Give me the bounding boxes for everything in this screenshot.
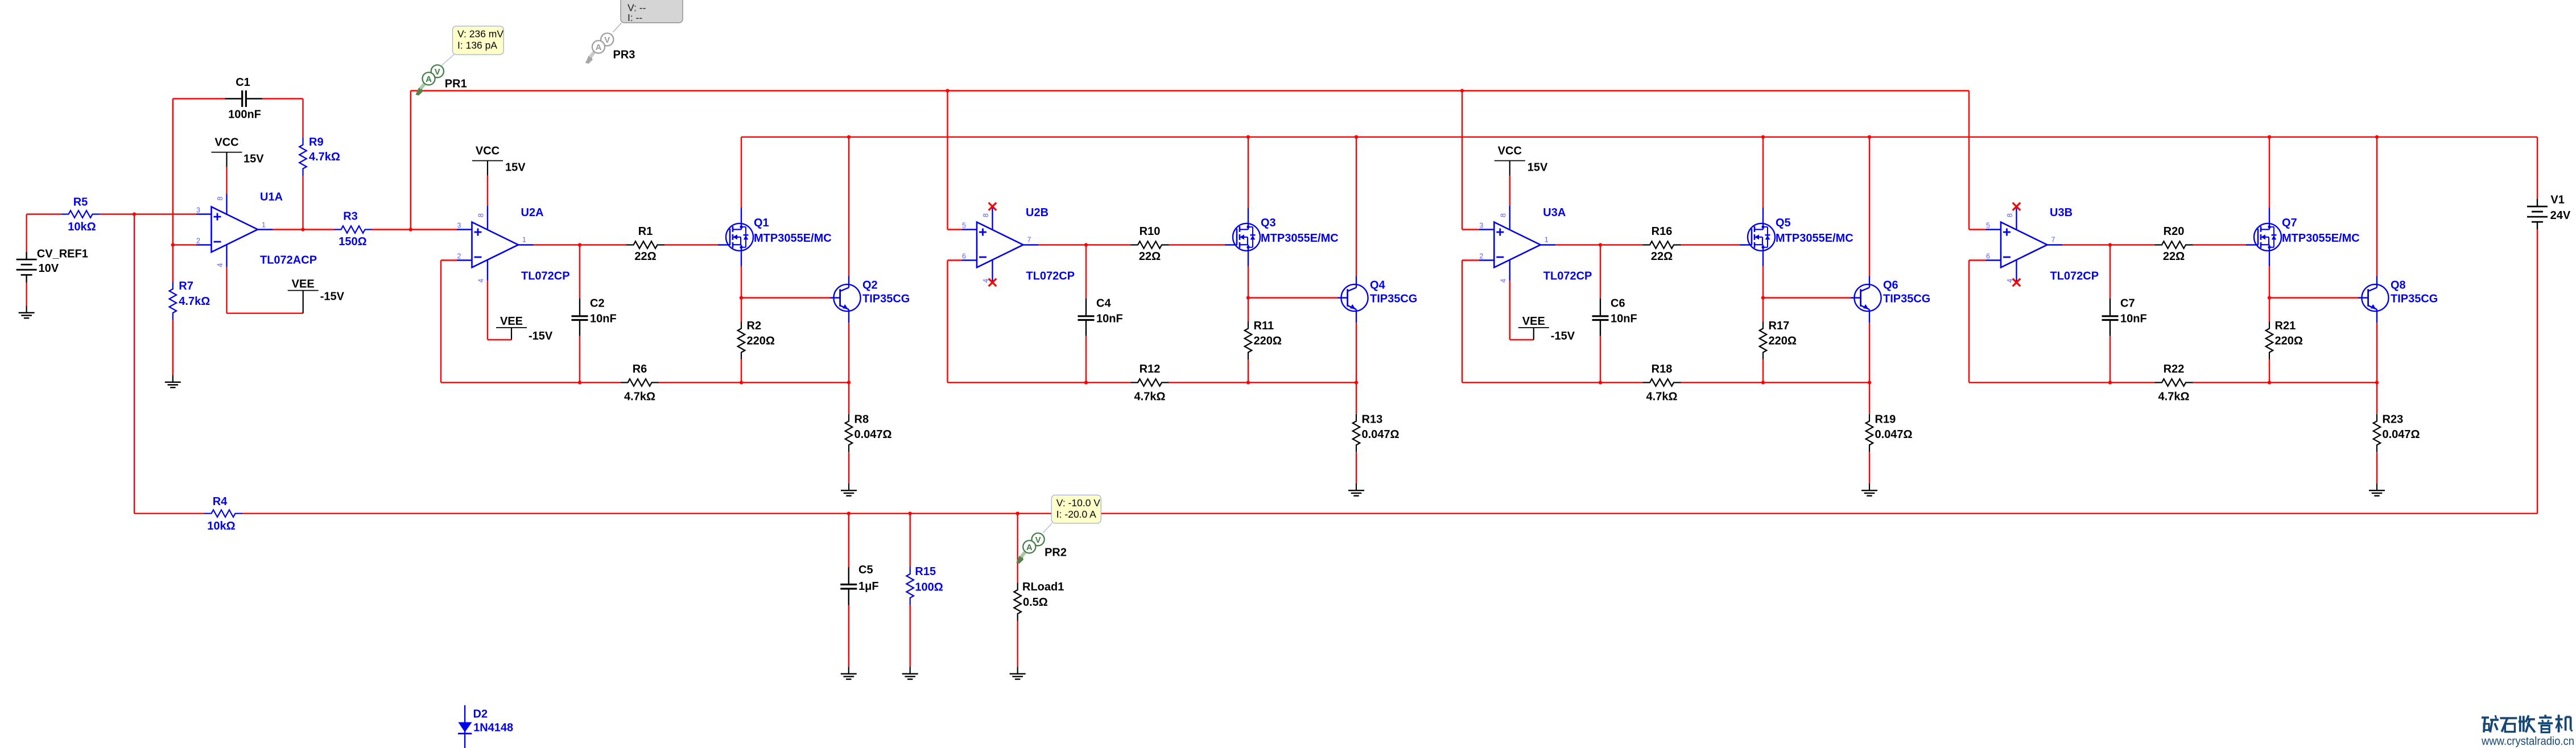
node collector/rail	[1868, 135, 1871, 139]
node source junction	[2268, 296, 2271, 299]
svg-text:1: 1	[522, 236, 526, 244]
node U2B output junction	[1084, 243, 1088, 246]
node cap/feedback	[2108, 381, 2112, 384]
VCC symbol U1A 15V	[212, 152, 242, 153]
BJT Q6 TIP35CG	[1854, 284, 1881, 311]
resistor R1 22Ω	[626, 241, 664, 249]
svg-text:R23: R23	[2383, 414, 2404, 426]
svg-text:D2: D2	[473, 708, 488, 721]
svg-text:V: V	[435, 67, 440, 77]
no-connect X pin 4	[2013, 279, 2021, 287]
svg-text:4.7kΩ: 4.7kΩ	[1134, 391, 1166, 403]
ground (RLoad1)	[1017, 667, 1018, 673]
svg-text:TIP35CG: TIP35CG	[1883, 293, 1930, 305]
svg-text:R11: R11	[1254, 320, 1274, 332]
svg-text:22Ω: 22Ω	[634, 250, 656, 263]
svg-text:3: 3	[457, 222, 461, 230]
svg-text:8: 8	[2006, 213, 2014, 217]
svg-text:R6: R6	[633, 363, 647, 375]
svg-text:PR1: PR1	[445, 78, 467, 90]
node U3A output junction	[1599, 243, 1602, 246]
svg-text:15V: 15V	[243, 153, 264, 166]
wire collector to rail	[848, 276, 849, 288]
svg-text:3: 3	[1479, 222, 1483, 230]
svg-text:R2: R2	[747, 320, 762, 332]
svg-text:U2A: U2A	[521, 206, 544, 219]
svg-text:MTP3055E/MC: MTP3055E/MC	[2282, 232, 2360, 245]
svg-text:4: 4	[1499, 279, 1507, 283]
node cap/feedback	[1599, 381, 1602, 384]
svg-text:R19: R19	[1875, 414, 1896, 426]
resistor R11 220Ω	[1248, 298, 1249, 322]
wire gate lead	[2193, 244, 2247, 245]
wire to BJT base	[1248, 297, 1337, 298]
svg-text:VCC: VCC	[214, 137, 238, 149]
svg-text:V: V	[1035, 535, 1041, 545]
resistor R20 22Ω	[2155, 241, 2193, 249]
node emitter/feedback	[2375, 381, 2379, 384]
node emitter/feedback	[847, 381, 851, 384]
svg-text:R10: R10	[1140, 225, 1161, 238]
svg-text:10kΩ: 10kΩ	[68, 221, 96, 233]
svg-text:TL072CP: TL072CP	[521, 270, 570, 283]
node source junction	[740, 296, 743, 299]
svg-text:15V: 15V	[1528, 162, 1548, 174]
svg-text:Q7: Q7	[2282, 217, 2297, 229]
wire collector to rail	[1356, 276, 1357, 288]
resistor R5 10k	[27, 213, 61, 214]
measurement box PR2	[1051, 495, 1101, 523]
svg-text:2: 2	[1479, 253, 1483, 261]
no-connect X pin 4	[989, 279, 997, 287]
wire U2A - input loop	[441, 259, 457, 261]
resistor R17 220Ω	[1762, 298, 1764, 322]
capacitor C4 10nF	[1085, 245, 1087, 299]
svg-text:1N4148: 1N4148	[473, 722, 513, 734]
wire bottom output rail	[134, 513, 204, 514]
svg-text:220Ω: 220Ω	[2275, 335, 2303, 348]
svg-text:I: --: I: --	[628, 12, 642, 23]
svg-text:R16: R16	[1652, 225, 1673, 238]
probe PR2	[1021, 547, 1030, 557]
svg-text:TL072CP: TL072CP	[1543, 270, 1592, 283]
svg-text:22Ω: 22Ω	[1139, 250, 1161, 263]
node source junction	[1761, 296, 1765, 299]
wire U2B + input tap	[947, 91, 948, 230]
node cap/feedback	[578, 381, 581, 384]
wire U3A output	[1541, 244, 1556, 245]
svg-text:10nF: 10nF	[2120, 313, 2147, 325]
svg-text:TIP35CG: TIP35CG	[1370, 293, 1417, 305]
no-connect X pin 8	[2013, 203, 2021, 210]
svg-text:VEE: VEE	[292, 278, 315, 291]
svg-text:R20: R20	[2164, 225, 2185, 238]
node drain/rail	[2268, 135, 2271, 139]
wire collector to rail	[2376, 276, 2377, 288]
node PR1 tap junction	[409, 228, 412, 231]
measurement box PR3	[621, 0, 683, 23]
svg-text:V: -10.0 V: V: -10.0 V	[1056, 497, 1100, 509]
wire drain to rail	[2269, 208, 2270, 229]
svg-text:10nF: 10nF	[1096, 313, 1123, 325]
node R15 tap	[909, 512, 912, 515]
svg-text:8: 8	[477, 213, 485, 217]
svg-text:VCC: VCC	[1498, 145, 1522, 158]
callout line PR3	[613, 23, 622, 32]
svg-text:4.7kΩ: 4.7kΩ	[309, 151, 340, 163]
wire feedback row	[1681, 382, 1870, 383]
svg-text:1: 1	[262, 221, 266, 229]
ground (CV_REF1)	[26, 306, 27, 313]
ground (R23)	[2376, 483, 2377, 490]
svg-text:R15: R15	[915, 565, 936, 578]
wire U3B + input tap	[1968, 91, 1970, 230]
svg-text:RLoad1: RLoad1	[1022, 581, 1064, 593]
resistor R2 220Ω	[741, 298, 742, 322]
node top-rail stage2 tap	[946, 89, 949, 92]
resistor R19 0.047Ω	[1869, 383, 1870, 414]
wire R5 node to U1A + input	[134, 213, 196, 214]
MOSFET Q3 MTP3055E/MC	[1233, 224, 1260, 251]
svg-text:22Ω: 22Ω	[2163, 250, 2185, 263]
op-amp U3A TL072CP	[1494, 222, 1541, 268]
BJT Q4 TIP35CG	[1341, 284, 1368, 311]
resistor R16 22Ω	[1643, 241, 1681, 249]
svg-text:5: 5	[1986, 222, 1990, 230]
svg-text:R7: R7	[179, 280, 193, 292]
svg-text:8: 8	[1499, 213, 1507, 217]
op-amp U2B TL072CP	[977, 222, 1023, 268]
ground (R7)	[172, 375, 174, 382]
svg-text:R21: R21	[2275, 320, 2296, 332]
node U1A output	[301, 228, 304, 231]
wire top rail (PR1 net)	[411, 90, 1969, 91]
wire to BJT base	[741, 297, 830, 298]
svg-text:TL072CP: TL072CP	[2050, 270, 2099, 283]
svg-text:5: 5	[962, 222, 966, 230]
svg-text:1μF: 1μF	[858, 580, 879, 593]
pin 4 stub (unconnected)	[992, 260, 993, 282]
resistor R4 10k	[204, 510, 242, 517]
svg-text:VEE: VEE	[1522, 315, 1545, 328]
ground (R8)	[848, 483, 849, 490]
node emitter/feedback	[1868, 381, 1871, 384]
svg-text:U3A: U3A	[1543, 206, 1566, 219]
ground (R15)	[910, 667, 911, 673]
capacitor C1 100nF	[173, 98, 225, 99]
svg-text:8: 8	[216, 196, 224, 200]
resistor R7 4.7k	[172, 245, 174, 282]
wire U3B output	[2047, 244, 2063, 245]
resistor R13 0.047Ω	[1356, 383, 1357, 414]
svg-text:C4: C4	[1096, 297, 1111, 310]
svg-text:C2: C2	[590, 297, 605, 310]
wire PR1 riser	[410, 91, 411, 230]
wire feedback row	[1169, 382, 1357, 383]
svg-text:0.5Ω: 0.5Ω	[1023, 596, 1048, 609]
resistor R21 220Ω	[2269, 298, 2270, 322]
VEE symbol U1A -15V	[226, 245, 227, 267]
svg-text:3: 3	[196, 206, 200, 214]
VCC symbol U3A 15V	[1495, 160, 1525, 162]
op-amp U2A TL072CP	[472, 222, 519, 268]
node collector/rail	[1355, 135, 1358, 139]
svg-text:Q4: Q4	[1370, 279, 1386, 292]
wire U3A - input loop	[1462, 259, 1479, 261]
node drain/rail	[1761, 135, 1765, 139]
resistor R8 0.047Ω	[848, 383, 849, 414]
svg-text:1: 1	[1545, 236, 1549, 244]
MOSFET Q7 MTP3055E/MC	[2254, 224, 2281, 251]
svg-text:PR3: PR3	[613, 49, 635, 61]
wire drain to rail	[741, 208, 742, 229]
node R5/R4 junction	[133, 212, 136, 216]
node cap/feedback	[1084, 381, 1088, 384]
VEE symbol U2A -15V	[487, 260, 488, 280]
svg-text:15V: 15V	[505, 162, 526, 174]
svg-text:100nF: 100nF	[228, 109, 261, 121]
svg-text:2: 2	[196, 237, 200, 245]
svg-text:U3B: U3B	[2050, 206, 2073, 219]
svg-text:7: 7	[1027, 236, 1031, 244]
svg-text:U1A: U1A	[260, 191, 283, 204]
MOSFET Q5 MTP3055E/MC	[1748, 224, 1775, 251]
op-amp U3B TL072CP	[2001, 222, 2047, 268]
svg-text:www.crystalradio.cn: www.crystalradio.cn	[2481, 735, 2574, 748]
wire drain to rail	[1762, 208, 1764, 229]
svg-text:2: 2	[457, 253, 461, 261]
probe PR3 (inactive)	[591, 47, 599, 57]
svg-text:V: V	[604, 35, 610, 45]
wire gate lead	[664, 244, 718, 245]
svg-text:TIP35CG: TIP35CG	[2391, 293, 2438, 305]
svg-text:220Ω: 220Ω	[1254, 335, 1282, 348]
wire U2A output	[518, 244, 534, 245]
svg-text:C5: C5	[858, 564, 873, 576]
svg-text:R8: R8	[854, 414, 869, 426]
svg-text:-15V: -15V	[1551, 330, 1575, 342]
svg-text:Q2: Q2	[862, 279, 878, 292]
svg-text:220Ω: 220Ω	[747, 335, 775, 348]
svg-text:10nF: 10nF	[1611, 313, 1637, 325]
MOSFET Q1 MTP3055E/MC	[726, 224, 753, 251]
node collector/rail	[847, 135, 851, 139]
svg-text:I: 136 pA: I: 136 pA	[457, 39, 497, 51]
svg-text:TL072CP: TL072CP	[1026, 270, 1075, 283]
svg-text:CV_REF1: CV_REF1	[37, 248, 88, 261]
pin 8 stub (unconnected)	[992, 208, 993, 229]
svg-text:Q8: Q8	[2391, 279, 2406, 292]
VEE symbol U3A -15V	[1509, 260, 1510, 280]
ground (R13)	[1356, 483, 1357, 490]
probe PR1	[420, 78, 429, 89]
svg-text:A: A	[596, 43, 602, 52]
svg-text:100Ω: 100Ω	[915, 581, 943, 594]
wire U1A output	[258, 229, 273, 230]
svg-text:220Ω: 220Ω	[1769, 335, 1797, 348]
svg-text:V: 236 mV: V: 236 mV	[457, 28, 503, 39]
svg-text:A: A	[1026, 543, 1033, 552]
svg-text:6: 6	[1986, 253, 1990, 261]
svg-text:10nF: 10nF	[590, 313, 617, 325]
wire U2B - input loop	[948, 259, 962, 261]
callout line PR2	[1043, 523, 1052, 533]
node drain/rail	[1246, 135, 1250, 139]
svg-text:MTP3055E/MC: MTP3055E/MC	[1776, 232, 1853, 245]
svg-text:-15V: -15V	[320, 291, 345, 303]
svg-text:Q5: Q5	[1776, 217, 1791, 229]
svg-text:-15V: -15V	[529, 330, 553, 342]
svg-text:A: A	[426, 75, 432, 84]
svg-text:I: -20.0 A: I: -20.0 A	[1056, 509, 1096, 520]
svg-text:0.047Ω: 0.047Ω	[1875, 428, 1913, 441]
svg-text:Q6: Q6	[1883, 279, 1898, 292]
node Rv/feedback	[1761, 381, 1765, 384]
no-connect X pin 8	[989, 203, 997, 210]
svg-text:7: 7	[2051, 236, 2055, 244]
svg-text:R4: R4	[213, 495, 228, 508]
wire emitter down	[848, 309, 849, 323]
VCC symbol U2A 15V	[472, 160, 503, 162]
svg-text:4: 4	[477, 279, 485, 283]
svg-text:R12: R12	[1140, 363, 1161, 375]
pin 8 stub (unconnected)	[2016, 208, 2017, 229]
svg-text:R1: R1	[638, 225, 653, 238]
svg-text:22Ω: 22Ω	[1651, 250, 1673, 263]
svg-text:6: 6	[962, 253, 966, 261]
wire U3A + input tap	[1462, 91, 1463, 230]
svg-text:10V: 10V	[39, 262, 59, 275]
svg-text:R18: R18	[1652, 363, 1673, 375]
node U2A output junction	[578, 243, 581, 246]
resistor R3 150	[334, 226, 372, 233]
wire source down	[1762, 245, 1764, 267]
battery V1 24V	[2537, 137, 2538, 199]
node C5 tap	[847, 512, 851, 515]
svg-text:Q1: Q1	[754, 217, 769, 229]
wire C1 left leg down to U1A - input	[172, 99, 174, 245]
svg-text:8: 8	[982, 213, 990, 217]
wire U2A + input tap	[411, 229, 457, 230]
node Rv/feedback	[2268, 381, 2271, 384]
svg-text:150Ω: 150Ω	[338, 235, 366, 248]
svg-text:Q3: Q3	[1261, 217, 1276, 229]
wire to BJT base	[1763, 297, 1851, 298]
svg-text:C6: C6	[1611, 297, 1625, 310]
node top-rail stage3 tap	[1460, 89, 1464, 92]
node RLoad1 tap	[1016, 512, 1019, 515]
wire U2B output	[1023, 244, 1039, 245]
capacitor C5 1uF	[848, 514, 849, 567]
node emitter/feedback	[1355, 381, 1358, 384]
BJT Q2 TIP35CG	[833, 284, 860, 311]
diode D2 1N4148	[464, 705, 465, 748]
ground (C5)	[848, 667, 849, 673]
svg-text:PR2: PR2	[1045, 547, 1067, 559]
wire U3B - input loop	[1969, 259, 1986, 261]
svg-text:R17: R17	[1769, 320, 1790, 332]
measurement box PR1	[453, 26, 504, 55]
BJT Q8 TIP35CG	[2362, 284, 2388, 311]
resistor R15 100	[909, 514, 910, 567]
node Rv/feedback	[1246, 381, 1250, 384]
wire collector to rail	[1869, 276, 1870, 288]
callout line PR1	[442, 55, 454, 65]
resistor R22 4.7kΩ	[2155, 379, 2193, 386]
op-amp U1A TL072ACP	[212, 207, 258, 253]
svg-text:R5: R5	[73, 196, 88, 209]
wire emitter down	[1356, 309, 1357, 323]
svg-text:U2B: U2B	[1026, 206, 1048, 219]
svg-text:MTP3055E/MC: MTP3055E/MC	[1261, 232, 1339, 245]
node source junction	[1246, 296, 1250, 299]
svg-text:4.7kΩ: 4.7kΩ	[624, 391, 655, 403]
svg-text:4: 4	[216, 263, 224, 267]
svg-text:MTP3055E/MC: MTP3055E/MC	[754, 232, 832, 245]
svg-text:0.047Ω: 0.047Ω	[854, 428, 892, 441]
svg-text:R3: R3	[343, 210, 358, 223]
resistor R6 4.7kΩ	[621, 379, 659, 386]
wire emitter down	[2376, 309, 2377, 323]
svg-text:VCC: VCC	[476, 145, 499, 158]
pin 4 stub (unconnected)	[2016, 260, 2017, 282]
ground (R19)	[1869, 483, 1870, 490]
watermark	[2482, 717, 2489, 719]
wire source down	[1248, 245, 1249, 267]
wire gate lead	[1169, 244, 1225, 245]
voltage source CV_REF1 10V	[26, 214, 27, 252]
svg-text:4.7kΩ: 4.7kΩ	[179, 295, 210, 308]
svg-text:C7: C7	[2120, 297, 2135, 310]
node U1A inverting node	[171, 243, 175, 246]
resistor R18 4.7kΩ	[1643, 379, 1681, 386]
wire to U1A - input	[173, 244, 196, 245]
svg-text:TIP35CG: TIP35CG	[862, 293, 910, 305]
svg-text:R13: R13	[1362, 414, 1383, 426]
node collector/rail	[2375, 135, 2379, 139]
resistor RLoad1 0.5	[1017, 514, 1018, 583]
svg-text:10kΩ: 10kΩ	[207, 520, 235, 532]
svg-text:TL072ACP: TL072ACP	[260, 254, 317, 267]
wire source down	[2269, 245, 2270, 267]
wire feedback row	[2193, 382, 2377, 383]
svg-text:24V: 24V	[2550, 209, 2571, 222]
capacitor C7 10nF	[2109, 245, 2111, 299]
svg-text:4.7kΩ: 4.7kΩ	[2158, 391, 2190, 403]
resistor R12 4.7kΩ	[1131, 379, 1169, 386]
wire feedback drop from R5 node to R4	[134, 214, 135, 514]
svg-text:0.047Ω: 0.047Ω	[2383, 428, 2420, 441]
svg-text:4.7kΩ: 4.7kΩ	[1646, 391, 1678, 403]
wire feedback row	[659, 382, 849, 383]
resistor R23 0.047Ω	[2376, 383, 2377, 414]
svg-text:C1: C1	[236, 76, 250, 89]
resistor R9 4.7k	[302, 99, 303, 138]
node Rv/feedback	[740, 381, 743, 384]
wire source down	[741, 245, 742, 267]
wire 24V positive rail	[741, 137, 2537, 138]
resistor R10 22Ω	[1131, 241, 1169, 249]
wire emitter down	[1869, 309, 1870, 323]
svg-text:R9: R9	[309, 136, 324, 148]
capacitor C2 10nF	[579, 245, 580, 299]
node U3B output junction	[2108, 243, 2112, 246]
svg-text:0.047Ω: 0.047Ω	[1362, 428, 1400, 441]
svg-text:V1: V1	[2550, 194, 2564, 206]
wire gate lead	[1681, 244, 1740, 245]
wire drain to rail	[1248, 208, 1249, 229]
svg-text:VEE: VEE	[500, 315, 523, 328]
